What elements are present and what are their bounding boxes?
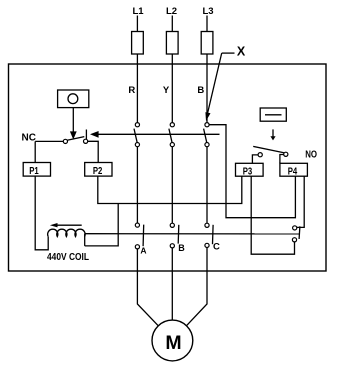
- fuse F2: [166, 32, 178, 55]
- wire aux bottom to P3: [251, 176, 294, 254]
- wire NO right to P4: [280, 155, 284, 164]
- svg-text:P4: P4: [288, 166, 298, 177]
- overload contact C: [205, 223, 213, 247]
- wire B phase to overload: [206, 147, 208, 223]
- svg-text:NO: NO: [305, 148, 317, 160]
- wire Y phase to overload: [171, 147, 173, 223]
- wire bus to coil: [85, 204, 119, 246]
- svg-text:L1: L1: [132, 6, 144, 17]
- terminal P1: [23, 163, 50, 178]
- svg-text:X: X: [237, 45, 246, 59]
- wire P2 to control bus: [98, 176, 242, 203]
- wire B to motor: [171, 248, 173, 320]
- NC stop contact: [35, 130, 87, 144]
- wire NO left to P3: [252, 155, 258, 163]
- wire L3 drop: [206, 16, 208, 32]
- terminal P3: [236, 163, 264, 177]
- wire P1 to coil: [35, 176, 48, 250]
- svg-text:B: B: [178, 243, 185, 253]
- contactor main contact Y: [169, 123, 175, 147]
- wire L3 to contact: [206, 54, 208, 123]
- mechanical link bar to NC: [90, 131, 220, 138]
- wire L2 drop: [171, 16, 173, 32]
- start button actuator arrow: [270, 129, 275, 140]
- wire B top to control: [209, 125, 295, 218]
- wire R phase to overload: [136, 147, 138, 223]
- auxiliary contact X: [292, 226, 300, 242]
- svg-text:R: R: [128, 85, 135, 96]
- wire NC to P2: [88, 141, 99, 162]
- svg-text:P2: P2: [93, 166, 103, 177]
- svg-text:P3: P3: [243, 166, 253, 177]
- start button: [260, 108, 286, 121]
- wire X leader: [205, 53, 234, 121]
- svg-text:A: A: [140, 246, 146, 256]
- overload contact B: [170, 223, 179, 248]
- svg-text:P1: P1: [29, 166, 39, 177]
- wire P4 to aux top: [297, 176, 305, 227]
- terminal P4: [280, 163, 308, 177]
- svg-text:L2: L2: [166, 6, 177, 17]
- fuse F1: [132, 32, 144, 55]
- overload contact A: [135, 223, 143, 249]
- mechanical link coil to contacts: [85, 233, 300, 235]
- contactor main contact B: [204, 123, 209, 147]
- svg-text:B: B: [197, 85, 204, 96]
- wire C to motor: [187, 248, 208, 326]
- wire L1 to contact: [136, 54, 138, 123]
- svg-text:C: C: [213, 242, 220, 253]
- fuse F3: [201, 32, 213, 55]
- coil arrow: [50, 223, 82, 227]
- contactor main contact R: [134, 123, 139, 147]
- wire A to motor: [137, 249, 158, 326]
- stop button: [58, 90, 89, 108]
- NO start contact: [253, 146, 288, 156]
- svg-text:NC: NC: [22, 133, 36, 144]
- motor M: [152, 320, 193, 361]
- svg-text:440V COIL: 440V COIL: [47, 252, 89, 263]
- enclosure box: [9, 64, 327, 271]
- wire L2 to contact: [171, 54, 173, 123]
- svg-text:L3: L3: [202, 6, 213, 17]
- wire L1 drop: [136, 16, 138, 32]
- svg-text:M: M: [165, 332, 181, 354]
- coil K1 440V: [48, 229, 86, 246]
- svg-text:Y: Y: [163, 85, 170, 96]
- stop button actuator arrow: [70, 108, 77, 140]
- terminal P2: [85, 163, 112, 178]
- wire NC to P1: [34, 141, 36, 162]
